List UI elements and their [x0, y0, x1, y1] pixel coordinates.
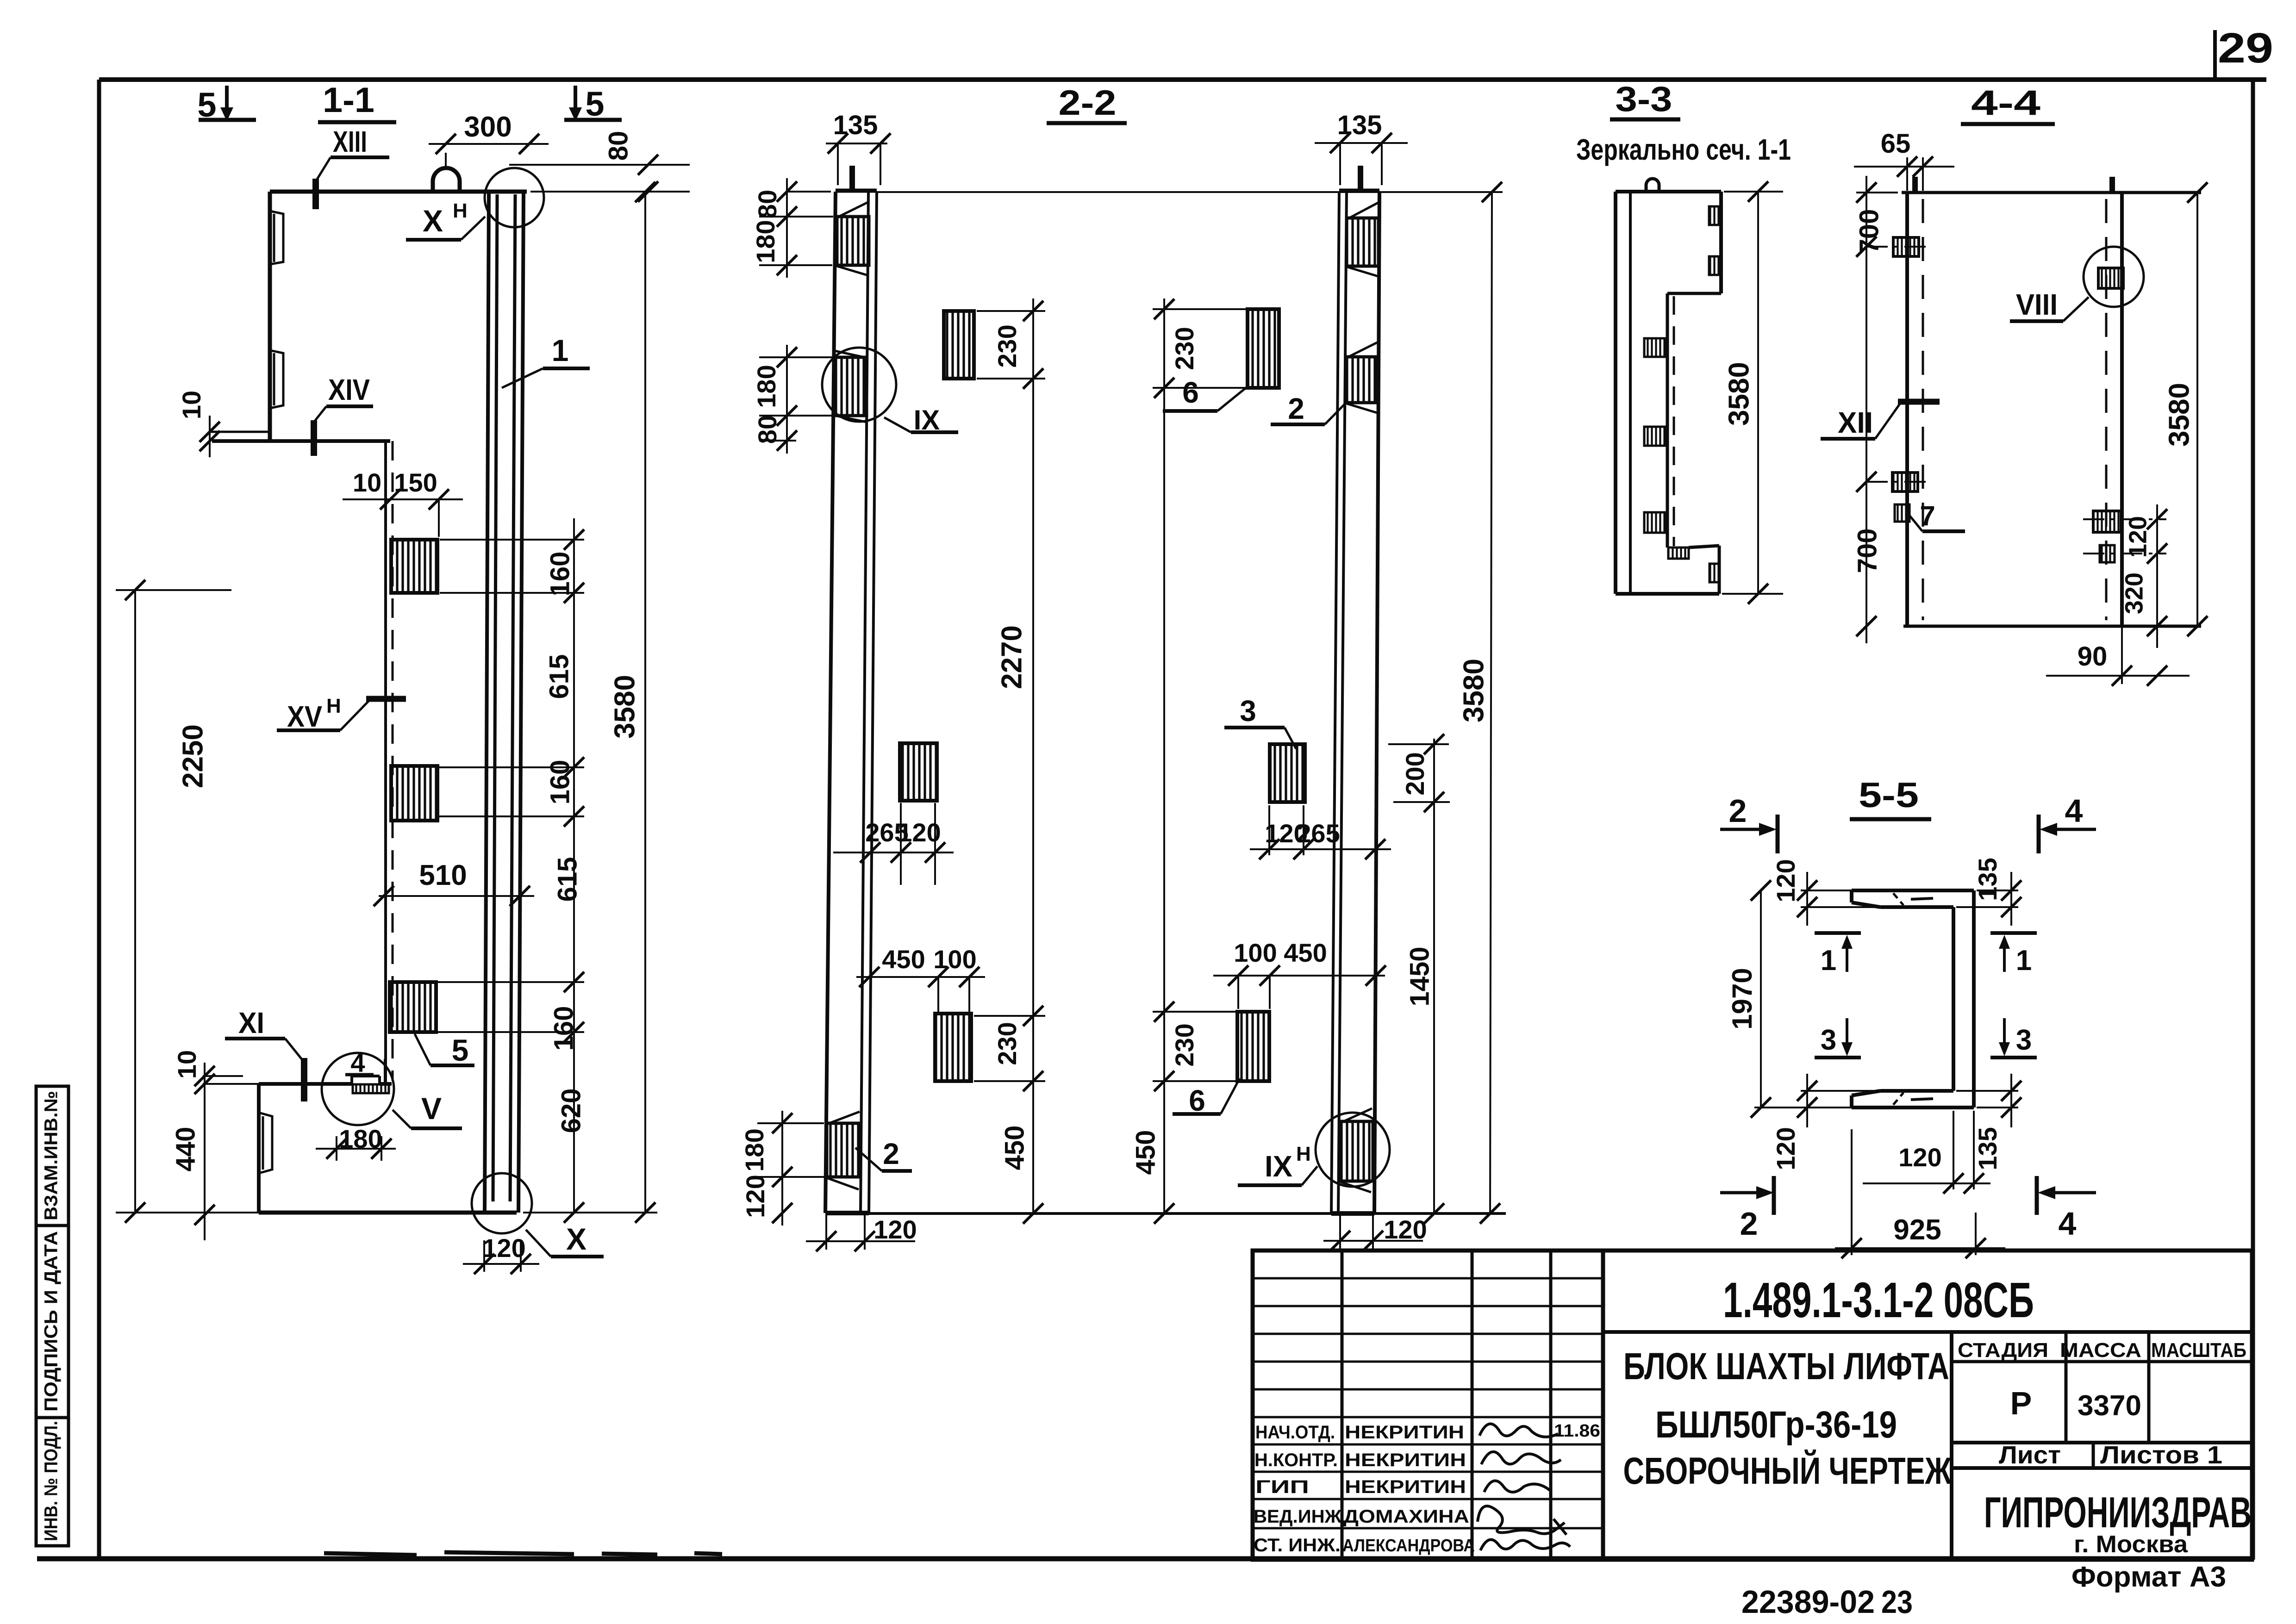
svg-text:3580: 3580 [609, 675, 641, 739]
svg-text:80: 80 [753, 190, 782, 218]
svg-text:230: 230 [992, 324, 1022, 367]
detail 4: raised step with toothed strip [350, 1076, 353, 1084]
left table rows [1253, 1277, 1603, 1280]
svg-text:4: 4 [2065, 793, 2083, 829]
svg-text:XI: XI [238, 1006, 264, 1039]
svg-text:7: 7 [1920, 500, 1935, 531]
svg-text:120: 120 [1384, 1215, 1427, 1244]
notch 1 on left edge [270, 211, 283, 264]
svg-text:450: 450 [999, 1126, 1029, 1170]
svg-text:65: 65 [1881, 129, 1911, 159]
hatched box 1 [391, 540, 437, 593]
svg-text:120: 120 [1771, 1127, 1800, 1170]
svg-text:120: 120 [741, 1175, 770, 1218]
svg-text:3-3: 3-3 [1616, 80, 1672, 119]
right wall connector boxes [2098, 268, 2123, 288]
svg-text:450: 450 [882, 945, 925, 974]
notch on lower piece [259, 1113, 272, 1173]
left table verticals [1341, 1251, 1344, 1559]
middle hatch box MB2 / 3 (right mid) [1270, 744, 1305, 802]
svg-text:135: 135 [1973, 858, 2002, 901]
section marker 5 down (right) [574, 86, 577, 109]
svg-text:Р: Р [2010, 1385, 2032, 1421]
right wall [2120, 193, 2124, 626]
svg-text:ДОМАХИНА: ДОМАХИНА [1343, 1506, 1469, 1527]
svg-text:МАСШТАБ: МАСШТАБ [2151, 1339, 2246, 1362]
col A hatch box A3 + caps [827, 1123, 860, 1177]
notch 2 on left edge [270, 350, 283, 408]
svg-text:3580: 3580 [1458, 659, 1490, 722]
svg-text:120: 120 [1771, 859, 1800, 902]
svg-text:Н.КОНТР.: Н.КОНТР. [1254, 1450, 1338, 1470]
svg-text:320: 320 [2120, 572, 2148, 614]
svg-text:г. Москва: г. Москва [2074, 1531, 2188, 1558]
signatures (cursive squiggles) [1478, 1424, 1570, 1550]
LEFT MARGIN BOXES [36, 1086, 69, 1546]
svg-text:80: 80 [603, 131, 633, 161]
svg-text:180: 180 [752, 365, 781, 408]
svg-text:100: 100 [933, 945, 976, 974]
middle hatch box M1 [944, 311, 974, 379]
svg-text:29: 29 [2218, 25, 2273, 72]
frame border [99, 77, 2266, 82]
svg-text:925: 925 [1893, 1214, 1941, 1246]
wall top edge [270, 190, 527, 194]
middle hatch box M2' [1237, 1012, 1269, 1081]
svg-text:510: 510 [419, 859, 467, 891]
svg-text:5: 5 [452, 1033, 469, 1067]
svg-text:100: 100 [1234, 938, 1277, 967]
svg-text:Листов 1: Листов 1 [2100, 1441, 2222, 1469]
notches right top [1709, 206, 1721, 225]
col A dims 180/80 at IX [759, 345, 833, 454]
svg-text:6: 6 [1182, 376, 1199, 409]
2250 dim line [134, 590, 136, 1213]
svg-text:23: 23 [1881, 1584, 1913, 1620]
svg-text:ГИП: ГИП [1255, 1477, 1309, 1497]
circle VIII [2084, 247, 2144, 307]
svg-text:22389-02: 22389-02 [1741, 1584, 1875, 1620]
svg-text:XII: XII [1838, 406, 1873, 439]
column A (left) [836, 189, 877, 193]
svg-text:XV: XV [287, 700, 322, 733]
U-shaped plan [1852, 890, 1974, 1108]
svg-text:VIII: VIII [2016, 288, 2058, 321]
3580 dim [1724, 191, 1783, 193]
right part division [1603, 1330, 2252, 1334]
page number tick [2213, 30, 2217, 82]
inner markers 1/3 left [1815, 931, 1861, 935]
svg-text:IX: IX [1265, 1150, 1292, 1183]
dim 300 [429, 143, 549, 145]
svg-text:1: 1 [1821, 945, 1836, 977]
circle X^H [485, 168, 544, 227]
inner wall line dashed [392, 441, 394, 1081]
right middle chain x=2515 [1153, 299, 1250, 1213]
svg-text:180: 180 [740, 1128, 769, 1171]
svg-text:160: 160 [549, 1006, 579, 1051]
svg-text:СТ. ИНЖ.: СТ. ИНЖ. [1254, 1535, 1341, 1556]
svg-text:ВЗАМ.ИНВ.№: ВЗАМ.ИНВ.№ [41, 1091, 62, 1220]
svg-text:Зеркально сеч. 1-1: Зеркально сеч. 1-1 [1576, 133, 1791, 166]
TITLE BLOCK [1253, 1251, 2252, 1560]
svg-text:Н: Н [326, 695, 341, 717]
svg-text:ГИПРОНИИЗДРАВ: ГИПРОНИИЗДРАВ [1984, 1488, 2252, 1537]
svg-text:3580: 3580 [2163, 383, 2195, 447]
svg-text:120: 120 [1898, 1143, 1941, 1172]
svg-text:4-4: 4-4 [1971, 83, 2040, 123]
svg-text:300: 300 [464, 111, 512, 143]
svg-text:НЕКРИТИН: НЕКРИТИН [1345, 1450, 1466, 1470]
svg-text:180: 180 [751, 220, 780, 263]
right 3580 [2196, 193, 2198, 626]
svg-text:ВЕД.ИНЖ: ВЕД.ИНЖ [1254, 1506, 1342, 1527]
dim 1970 left [1760, 890, 1762, 1108]
svg-text:Лист: Лист [1999, 1441, 2061, 1469]
col A dims 180/120 bottom [757, 1111, 824, 1226]
dim 10 at step [209, 416, 211, 457]
column B (right) [1339, 189, 1379, 193]
svg-text:Н: Н [1296, 1143, 1311, 1165]
svg-text:230: 230 [1170, 1023, 1199, 1066]
svg-text:160: 160 [545, 760, 575, 805]
svg-text:АЛЕКСАНДРОВА: АЛЕКСАНДРОВА [1342, 1536, 1475, 1556]
svg-text:200: 200 [1400, 752, 1429, 795]
top and bottom edges [1902, 191, 2201, 194]
svg-text:3: 3 [1821, 1024, 1836, 1056]
svg-text:230: 230 [1170, 327, 1199, 370]
step [1667, 292, 1721, 295]
svg-text:135: 135 [1973, 1127, 2002, 1170]
svg-text:XIII: XIII [333, 125, 367, 158]
inner markers 1/3 right [1990, 931, 2037, 935]
svg-text:10: 10 [172, 1050, 201, 1079]
left chain 700/700 [1856, 176, 1926, 643]
svg-text:120: 120 [2124, 516, 2152, 558]
svg-text:2: 2 [1288, 392, 1304, 425]
svg-text:230: 230 [992, 1022, 1022, 1065]
svg-text:1: 1 [552, 333, 569, 367]
right bottom chain 120/320 [2083, 504, 2166, 648]
svg-text:5-5: 5-5 [1859, 776, 1919, 815]
3580 dim line (2-2) [1490, 192, 1492, 1213]
svg-text:XIV: XIV [328, 373, 370, 406]
svg-text:ПОДПИСЬ И ДАТА: ПОДПИСЬ И ДАТА [41, 1231, 62, 1412]
svg-text:120: 120 [873, 1215, 917, 1244]
svg-text:10: 10 [177, 391, 206, 419]
svg-text:1970: 1970 [1727, 968, 1758, 1029]
col A dims 80/180 top [759, 178, 833, 278]
svg-text:80: 80 [753, 415, 782, 444]
svg-text:1: 1 [2016, 945, 2032, 977]
col A hatch box A1 + caps [837, 217, 869, 265]
top extension line across [877, 191, 1503, 193]
svg-text:135: 135 [1337, 110, 1382, 140]
svg-text:90: 90 [2078, 641, 2108, 672]
left middle chain x=2232 [974, 299, 1045, 1213]
svg-text:450: 450 [1130, 1130, 1160, 1175]
svg-text:615: 615 [544, 654, 574, 699]
svg-text:3: 3 [1240, 694, 1256, 728]
bottom baseline [869, 1212, 1506, 1215]
hatched box 2 [391, 766, 437, 821]
svg-text:БЛОК ШАХТЫ ЛИФТА: БЛОК ШАХТЫ ЛИФТА [1623, 1345, 1949, 1388]
svg-text:СБОРОЧНЫЙ ЧЕРТЕЖ: СБОРОЧНЫЙ ЧЕРТЕЖ [1623, 1450, 1952, 1492]
svg-text:3580: 3580 [1723, 362, 1755, 426]
svg-text:ИНВ. № ПОДЛ.: ИНВ. № ПОДЛ. [41, 1421, 62, 1541]
svg-text:135: 135 [833, 110, 878, 140]
svg-text:10: 10 [353, 468, 381, 497]
svg-text:V: V [421, 1091, 442, 1126]
svg-text:620: 620 [556, 1089, 586, 1133]
inner wall line solid [384, 441, 387, 1084]
circle V [322, 1053, 394, 1125]
svg-text:11.86: 11.86 [1554, 1421, 1600, 1441]
svg-text:X: X [566, 1222, 586, 1256]
svg-text:X: X [423, 204, 443, 238]
svg-text:НЕКРИТИН: НЕКРИТИН [1345, 1477, 1466, 1497]
svg-text:БШЛ50Гр-36-19: БШЛ50Гр-36-19 [1655, 1404, 1897, 1446]
svg-text:4: 4 [2059, 1206, 2077, 1242]
channel element 1 (4 vertical lines) [485, 193, 489, 1213]
svg-text:2: 2 [883, 1137, 899, 1170]
svg-text:700: 700 [1854, 209, 1884, 254]
dims 10 and 440 left [203, 1075, 243, 1077]
svg-text:НАЧ.ОТД.: НАЧ.ОТД. [1255, 1422, 1335, 1443]
left wall connector boxes [1893, 237, 1919, 256]
middle hatch box MA2 (left mid) [900, 743, 937, 801]
col B hatch box B2 + caps [1346, 357, 1378, 403]
hatched box 5 [390, 982, 436, 1032]
col A hatch box A2 (circle IX) + caps [835, 357, 867, 416]
svg-text:1-1: 1-1 [323, 81, 374, 120]
svg-text:440: 440 [170, 1127, 200, 1172]
svg-text:НЕКРИТИН: НЕКРИТИН [1345, 1422, 1464, 1443]
svg-text:1450: 1450 [1404, 946, 1435, 1006]
svg-text:2250: 2250 [177, 724, 209, 788]
dim 80 top right [509, 164, 690, 166]
right dim chain x=1240 [435, 518, 657, 1213]
svg-text:2: 2 [1729, 793, 1747, 829]
svg-text:2-2: 2-2 [1059, 83, 1117, 123]
svg-text:СТАДИЯ: СТАДИЯ [1958, 1339, 2048, 1362]
svg-text:1.489.1-3.1-2 08СБ: 1.489.1-3.1-2 08СБ [1723, 1272, 2034, 1328]
wall left edge [268, 192, 272, 441]
middle hatch box M2 [1248, 309, 1279, 388]
3580 dim line [644, 192, 646, 1213]
dim 200 + 1450 right chain [1388, 739, 1450, 1213]
svg-text:2270: 2270 [996, 625, 1028, 689]
svg-text:615: 615 [552, 857, 582, 902]
outline [1614, 192, 1617, 594]
lower step [1668, 548, 1689, 559]
svg-text:150: 150 [394, 468, 437, 497]
col B hatch box B1 + caps [1347, 218, 1379, 266]
svg-text:МАССА: МАССА [2060, 1339, 2141, 1362]
lifting loop [433, 168, 460, 192]
svg-text:3370: 3370 [2078, 1390, 2141, 1422]
svg-text:700: 700 [1852, 529, 1882, 573]
svg-text:450: 450 [1284, 938, 1327, 967]
step at wall bottom [209, 431, 270, 433]
svg-text:160: 160 [545, 552, 575, 597]
svg-text:2: 2 [1740, 1206, 1758, 1242]
svg-text:Н: Н [453, 199, 468, 222]
col B hatch box B3 (circle IX^H) + caps [1341, 1121, 1373, 1181]
lower-left wall piece [259, 1082, 352, 1086]
circle X bottom [472, 1173, 532, 1233]
inner boxes [1644, 338, 1666, 357]
middle hatch box M1' [935, 1014, 971, 1081]
svg-text:3: 3 [2016, 1024, 2032, 1056]
svg-text:Формат А3: Формат А3 [2071, 1561, 2226, 1593]
left wall [1905, 193, 1909, 626]
svg-text:5: 5 [585, 85, 604, 123]
